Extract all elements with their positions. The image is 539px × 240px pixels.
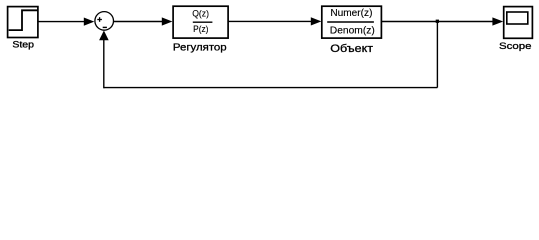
svg-text:P(z): P(z) bbox=[193, 24, 208, 34]
wire feedback loop (down, left, up into sum minus input) bbox=[99, 22, 437, 89]
block Regulator (discrete transfer fcn Q(z)/P(z)) bbox=[173, 6, 228, 38]
sum junction (circle with + and - inputs) bbox=[95, 12, 114, 31]
block Step (source) bbox=[8, 7, 38, 38]
block Object (plant transfer fcn Numer(z)/Denom(z)) bbox=[322, 6, 382, 38]
wire Regulator to Object block bbox=[228, 17, 321, 25]
svg-text:Scope: Scope bbox=[499, 41, 532, 51]
wire Step to sum junction bbox=[38, 18, 94, 26]
node feedback tap (junction dot) bbox=[436, 20, 439, 23]
wire Object to Scope bbox=[381, 17, 503, 25]
svg-text:Объект: Объект bbox=[330, 43, 373, 55]
wire sum junction to Regulator block bbox=[114, 17, 173, 25]
svg-text:Регулятор: Регулятор bbox=[173, 42, 227, 53]
svg-text:Denom(z): Denom(z) bbox=[330, 25, 375, 36]
svg-text:Q(z): Q(z) bbox=[192, 9, 209, 19]
svg-text:Numer(z): Numer(z) bbox=[330, 8, 372, 19]
block Scope (sink) bbox=[504, 7, 533, 39]
svg-text:Step: Step bbox=[12, 40, 34, 50]
